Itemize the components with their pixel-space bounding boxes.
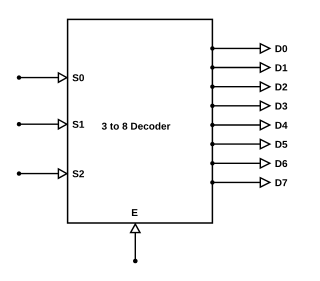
- wire D4: [212, 124, 260, 126]
- wire D6: [212, 162, 260, 164]
- arrowhead D4: [260, 120, 270, 129]
- junction D5: [210, 142, 214, 146]
- junction D0: [210, 46, 214, 50]
- wire D1: [212, 67, 260, 69]
- pin label S2: [72, 170, 84, 177]
- arrowhead D7: [260, 178, 270, 187]
- pin label D1: [275, 64, 287, 71]
- junction D6: [210, 161, 214, 165]
- pin label D2: [275, 83, 287, 90]
- arrowhead D1: [260, 63, 270, 72]
- junction D4: [210, 123, 214, 127]
- pin label E: [132, 209, 138, 216]
- wire D5: [212, 143, 260, 145]
- arrowhead E: [131, 224, 140, 233]
- arrowhead D3: [260, 101, 270, 110]
- wire S1: [19, 123, 58, 125]
- arrowhead S1: [58, 120, 67, 129]
- wire E: [134, 233, 136, 261]
- junction D2: [210, 85, 214, 89]
- wire D7: [212, 181, 260, 183]
- pin label D3: [275, 103, 287, 110]
- decoder U1 label "3 to 8 Decoder": [102, 122, 171, 129]
- pin label D0: [275, 45, 287, 52]
- pin label D6: [275, 160, 287, 167]
- arrowhead D0: [260, 44, 270, 53]
- arrowhead D5: [260, 139, 270, 148]
- node S1 (input terminal dot): [17, 122, 21, 126]
- pin label S0: [72, 74, 84, 81]
- pin label D5: [275, 141, 287, 148]
- decoder U1 body: [68, 19, 213, 223]
- node S0 (input terminal dot): [17, 75, 21, 79]
- node S2 (input terminal dot): [17, 171, 21, 175]
- pin label D7: [275, 179, 287, 186]
- junction D1: [210, 65, 214, 69]
- junction D3: [210, 104, 214, 108]
- arrowhead D6: [260, 159, 270, 168]
- wire D0: [212, 47, 260, 49]
- wire D2: [212, 86, 260, 88]
- node E (enable terminal dot): [133, 259, 138, 264]
- pin label S1: [72, 121, 84, 128]
- arrowhead S2: [58, 169, 67, 178]
- arrowhead S0: [58, 73, 67, 82]
- wire S2: [19, 173, 58, 175]
- wire S0: [19, 77, 58, 79]
- wire D3: [212, 105, 260, 107]
- junction D7: [210, 180, 214, 184]
- arrowhead D2: [260, 82, 270, 91]
- pin label D4: [275, 122, 287, 129]
